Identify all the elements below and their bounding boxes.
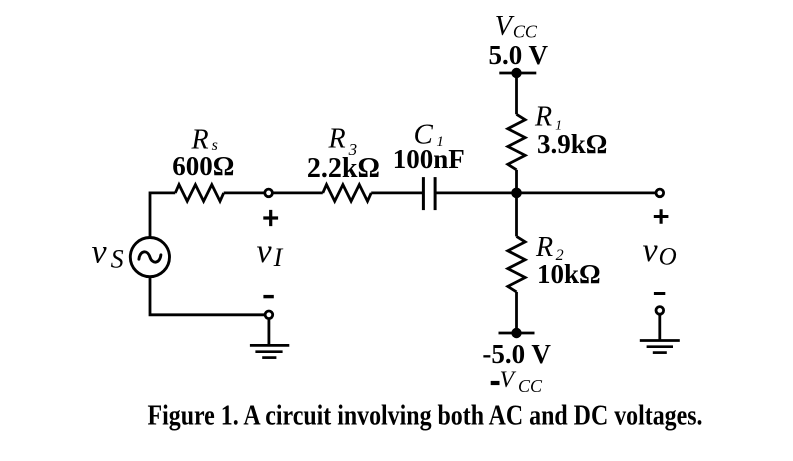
wire: junction to R2 [515,193,518,237]
svg-text:5.0 V: 5.0 V [488,40,548,70]
label -VCC [491,381,500,385]
resistor R3 [323,185,371,202]
wire: left branch from top wire down to source top [150,193,175,237]
wire: vI terminal to R3 [272,191,323,194]
wire: source bottom down and right to vI- terminal [150,278,265,315]
wire: R1 to junction [515,170,518,195]
label - (vI) [263,295,273,298]
label + (vI) [263,210,278,226]
sine symbol inside source [139,252,161,262]
label + (vO) [654,209,669,224]
node vI+ terminal (open circle) [265,189,273,197]
output terminal vO (open circle) [656,189,664,197]
power VCC terminal bar [499,72,536,75]
resistor R1 [508,114,525,170]
svg-text:-5.0 V: -5.0 V [482,339,551,369]
wire: vO terminal to ground [658,314,661,341]
wire: R3 to C1 [371,191,423,194]
svg-text:2.2kΩ: 2.2kΩ [307,153,380,184]
svg-text:Figure 1. A circuit involving: Figure 1. A circuit involving both AC an… [148,400,703,431]
ground (left) [250,345,289,357]
resistor R2 [508,236,525,292]
capacitor C1 [423,177,435,210]
ground (right) [640,341,680,353]
node vI- terminal (open circle) [265,311,273,319]
label - (vO) [654,292,665,295]
svg-text:600Ω: 600Ω [172,151,234,181]
power -VCC terminal bar [499,332,535,335]
wire: Rs to vI terminal [224,191,265,194]
wire: C1 to output terminal [435,191,656,194]
junction node dot [511,188,522,199]
voltage source vS [130,238,169,277]
wire: vI- terminal to ground [267,319,270,346]
resistor Rs [175,185,223,202]
wire: VCC bar to R1 [515,73,518,114]
node dot at -VCC [511,328,521,338]
svg-text:3.9kΩ: 3.9kΩ [537,129,607,159]
node dot at VCC [511,68,521,78]
vO ground terminal (open circle) [656,307,664,315]
svg-text:100nF: 100nF [393,144,465,174]
wire: R2 to -VCC bar [515,292,518,333]
svg-text:10kΩ: 10kΩ [537,259,601,289]
